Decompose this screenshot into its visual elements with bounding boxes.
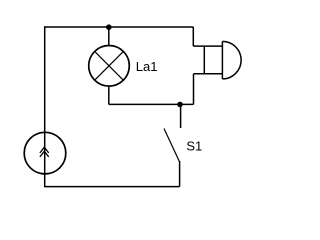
svg-text:S1: S1 xyxy=(186,138,202,153)
svg-text:La1: La1 xyxy=(136,59,158,74)
